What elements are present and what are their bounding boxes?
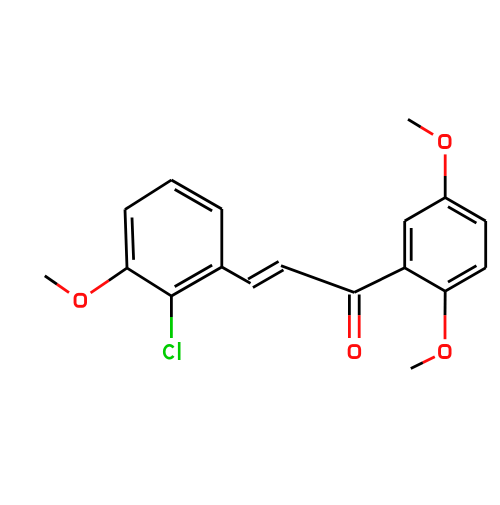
atom O bottom-right methoxy: [440, 346, 451, 358]
atom O carbonyl: [349, 346, 360, 358]
bond O_bot-CH3 black half: [411, 363, 423, 369]
bond B4-B5: [484, 221, 487, 268]
atom O top-right methoxy: [440, 136, 451, 148]
bond B1-B2: [403, 221, 406, 268]
bond C1-Cl black half: [170, 296, 173, 317]
bond B1-B2 inner aromatic line: [410, 228, 413, 261]
bond C6-C1 inner aromatic line: [175, 265, 212, 287]
chain bond C6-A1: [222, 267, 251, 283]
bond B2-B3: [405, 198, 446, 221]
bond C2-O red half: [91, 281, 109, 293]
bond C4-C5 inner aromatic line: [175, 189, 212, 211]
bond C6-C1: [171, 267, 221, 296]
bond B5-B6 inner aromatic line: [448, 266, 476, 282]
bond B3-O_top red half: [444, 154, 447, 176]
bond O_top-CH3 black half: [408, 119, 421, 127]
bond A3-B1 (to right ring): [354, 268, 404, 293]
bond B6-O_bot black half: [444, 291, 447, 315]
carbonyl C=O red halves: [348, 315, 351, 338]
bond C5-C6: [220, 209, 223, 267]
bond C4-C5: [171, 180, 221, 209]
bond C1-Cl green half: [170, 317, 173, 338]
chain double bond A1=A2 line a: [248, 261, 278, 279]
bond C1-C2: [127, 268, 171, 296]
carbonyl C=O black halves: [348, 295, 351, 316]
bond B5-B6: [445, 268, 486, 291]
bond B6-O_bot red half: [444, 315, 447, 339]
atom Cl label: letter C: [164, 345, 173, 358]
bond O_bot-CH3 red half: [423, 357, 435, 363]
bond B3-B4: [445, 198, 486, 221]
bond O-CH3 black half (left methoxy): [45, 276, 57, 284]
bond C2-C3: [125, 210, 127, 269]
bond B3-O_top black half: [444, 176, 447, 198]
atom O left methoxy: [75, 294, 86, 306]
chain double bond A1=A2 line b: [253, 270, 284, 288]
bond O-CH3 red half (left methoxy): [57, 284, 69, 292]
bond C2-O black half: [109, 268, 127, 281]
atom Cl label: letter l: [178, 342, 181, 360]
bond B3-B4 inner aromatic line: [448, 207, 476, 223]
bond B6-B1: [405, 268, 446, 291]
bond O_top-CH3 red half: [421, 127, 434, 135]
bond C2-C3 inner aromatic line: [132, 218, 134, 260]
bond C3-C4: [125, 180, 171, 210]
chain bond A2-A3: [281, 266, 354, 293]
